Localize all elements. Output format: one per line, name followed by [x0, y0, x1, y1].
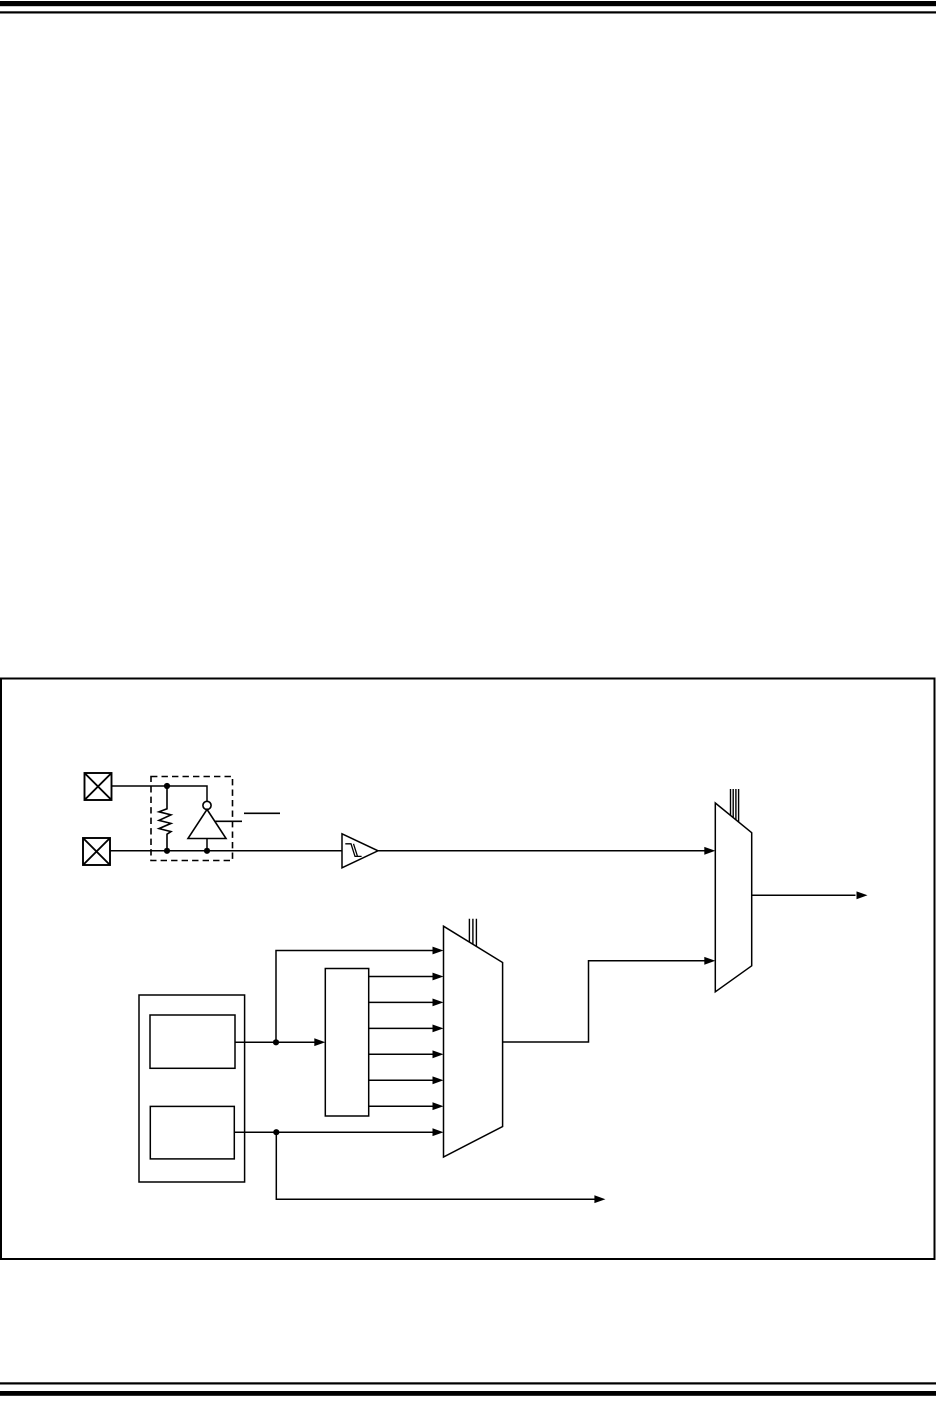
arrowhead M1 input 7: [433, 1102, 444, 1110]
wire M1 output to M2 lower input: [503, 961, 705, 1042]
wire inverter output to node: [206, 839, 208, 852]
arrowhead M1 input 2: [433, 973, 444, 981]
node junction dot bottom left: [164, 848, 170, 854]
page footer thin rule: [0, 1382, 936, 1384]
register box 2: [150, 1106, 234, 1159]
pad P2 (crossed box): [83, 838, 110, 865]
wire register2 to M1 bottom input: [235, 1131, 433, 1133]
arrowhead into M2 lower input: [704, 957, 715, 965]
noise filter buffer U2 triangle: [342, 834, 378, 868]
label pointer line A (enable): [215, 820, 242, 822]
wire pad P1 to inverter input: [112, 786, 208, 801]
arrowhead M1 input 5: [433, 1050, 444, 1058]
dashed box (pull-up resistor block): [151, 777, 233, 861]
arrowhead into divider box: [314, 1038, 325, 1046]
arrowhead M1 input 1: [433, 947, 444, 955]
arrowhead M1 input 6: [433, 1076, 444, 1084]
noise filter hysteresis glyph: [345, 844, 361, 857]
page footer thick rule: [0, 1391, 936, 1396]
mux M2 select lines (4): [731, 789, 739, 822]
node junction dot register1: [273, 1039, 279, 1045]
wire divider out 4: [369, 1053, 433, 1055]
figure frame: [1, 679, 935, 1260]
divider box: [325, 969, 368, 1117]
arrowhead M1 input 8: [433, 1128, 444, 1136]
mux M2 (right) trapezoid: [715, 803, 751, 992]
node junction dot top: [164, 783, 170, 789]
pad P1 (crossed box): [85, 773, 112, 800]
wire pad P2 to noise filter input: [110, 850, 342, 852]
wire divider out 6: [369, 1105, 433, 1107]
wire M2 output: [752, 894, 856, 896]
wire register2 branch down and right: [276, 1132, 595, 1199]
wire divider out 5: [369, 1079, 433, 1081]
resistor R (pull-up): [159, 786, 171, 851]
node junction dot register2: [273, 1129, 279, 1135]
register box 1: [150, 1015, 235, 1068]
arrowhead into M2 upper input: [704, 847, 715, 855]
wire divider out 3: [369, 1027, 433, 1029]
registers outer box: [139, 995, 245, 1182]
mux M1 (left) trapezoid: [444, 926, 503, 1157]
mux M1 select lines (3): [469, 919, 476, 947]
wire register1 to divider box: [235, 1041, 315, 1043]
arrowhead bottom branch: [594, 1195, 605, 1203]
page header thick rule: [0, 1, 936, 6]
page header thin rule: [0, 11, 936, 13]
inverter U1 triangle: [188, 809, 226, 838]
wire divider out 1: [369, 976, 433, 978]
wire divider out 2: [369, 1001, 433, 1003]
node junction dot bottom right: [204, 848, 210, 854]
wire buffer output to mux M2 input: [378, 850, 705, 852]
arrowhead M2 output: [857, 891, 868, 899]
arrowhead M1 input 3: [433, 999, 444, 1007]
label pointer line B: [244, 812, 280, 814]
inverter U1 bubble: [203, 801, 211, 809]
arrowhead M1 input 4: [433, 1025, 444, 1033]
wire riser to M1 top input: [276, 951, 433, 1043]
